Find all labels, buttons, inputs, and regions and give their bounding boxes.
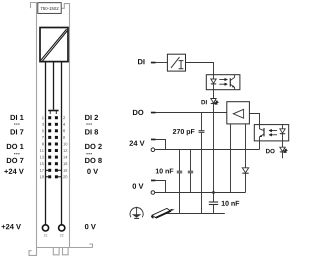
- dots DO right: [87, 153, 92, 154]
- wire DO LED stub: [282, 152, 284, 158]
- label DI 1: [11, 115, 24, 120]
- optocoupler 2 box: [254, 125, 288, 141]
- capacitor 10 nF bottom: [213, 193, 215, 202]
- wire 0V jumper to rail: [156, 181, 166, 193]
- label DI 8: [85, 129, 98, 134]
- driver box: [227, 102, 250, 124]
- LED DO status: [280, 147, 285, 151]
- label DI input: [138, 59, 145, 64]
- module bottom-left foot: [29, 248, 37, 256]
- LED DI status: [211, 99, 216, 104]
- label 0 V: [133, 183, 144, 188]
- wire opto2 bottom to 24V rail: [259, 141, 261, 150]
- wire driver bottom right: [245, 124, 247, 168]
- opto2 phototransistor: [260, 125, 265, 131]
- wire DO to driver: [156, 112, 227, 114]
- label DI 2: [85, 115, 98, 120]
- electronics square: [40, 28, 68, 62]
- terminal 22: [59, 225, 65, 231]
- wire DI to filter: [156, 62, 168, 64]
- module body outline: [37, 13, 70, 248]
- label 270 pF: [173, 129, 195, 135]
- label 0 V bottom: [85, 224, 96, 229]
- DO clamp: [151, 112, 156, 114]
- optocoupler 1 box: [206, 75, 240, 90]
- label 0 V right: [87, 169, 98, 174]
- label DI LED: [201, 100, 206, 104]
- net 0V rail: [155, 192, 246, 194]
- shield T-bar: [48, 110, 58, 112]
- opto1 phototransistor: [229, 78, 231, 86]
- wire opto1 to DI LED: [213, 90, 215, 99]
- pin numbers right: [63, 116, 67, 178]
- label 24 V: [129, 141, 144, 146]
- wire opto2 to DO LED: [282, 141, 284, 147]
- label DO 7: [7, 158, 24, 163]
- 0V jumper clamp: [151, 180, 156, 182]
- isolation double diagonal: [41, 29, 67, 60]
- dots DI right: [87, 123, 92, 124]
- label DO 2: [85, 144, 102, 149]
- dots DO left: [14, 153, 19, 154]
- label box 750-1502: [38, 3, 61, 14]
- filter box: [167, 54, 185, 71]
- driver triangle: [233, 109, 243, 118]
- module bottom-right step: [89, 244, 92, 248]
- DIN rail symbol: [151, 208, 173, 218]
- wire left contact column: [45, 62, 47, 225]
- label DO 1: [7, 144, 24, 149]
- net 24V rail: [155, 149, 260, 151]
- label +24 V bottom: [2, 224, 21, 229]
- opto2 light arrows: [269, 129, 277, 136]
- 24V jumper clamp: [151, 139, 156, 141]
- opto1 LED diode: [213, 75, 215, 79]
- capacitor 270 pF (DO to FE): [201, 113, 203, 131]
- wire filter to opto1: [186, 63, 214, 75]
- diode to 0V: [242, 168, 248, 173]
- earth symbol in circle: [130, 207, 143, 218]
- net FE earth rail: [165, 213, 225, 215]
- module bottom edge: [37, 247, 93, 249]
- wire right contact column: [61, 62, 63, 225]
- label DI 7: [11, 129, 24, 134]
- label DO 8: [85, 158, 102, 163]
- wire center shield: [53, 62, 55, 110]
- module bottom teeth: [53, 248, 59, 255]
- label 10 nF bottom: [222, 201, 240, 206]
- opto1 light arrows: [219, 78, 227, 85]
- power row ticks: [46, 170, 62, 177]
- wire driver bottom left to 0V rail: [230, 124, 232, 193]
- opto2 LED diode: [282, 125, 284, 129]
- label DO output: [133, 110, 143, 115]
- terminal circle 0V: [151, 191, 155, 195]
- terminal 21: [42, 225, 48, 231]
- junction dot 0V rail: [212, 191, 215, 194]
- module top-right hook: [61, 4, 69, 13]
- wire driver to opto2: [249, 114, 259, 125]
- DI clamp: [151, 62, 156, 64]
- pin numbers left: [40, 116, 44, 178]
- terminal contacts rows 1-10: [48, 116, 58, 178]
- dots DI left: [14, 123, 19, 124]
- module top-left hook: [31, 3, 37, 14]
- capacitor 10 nF B (24V to 0V): [190, 150, 192, 172]
- label DO LED: [266, 149, 275, 153]
- wire 24V jumper to rail: [156, 140, 166, 150]
- wire DI LED to 0V rail: [213, 104, 215, 193]
- label 10 nF left: [156, 169, 174, 174]
- terminal circle 24V: [151, 148, 155, 152]
- label +24 V left: [4, 169, 23, 174]
- capacitor 10 nF A (24V to FE): [179, 150, 181, 172]
